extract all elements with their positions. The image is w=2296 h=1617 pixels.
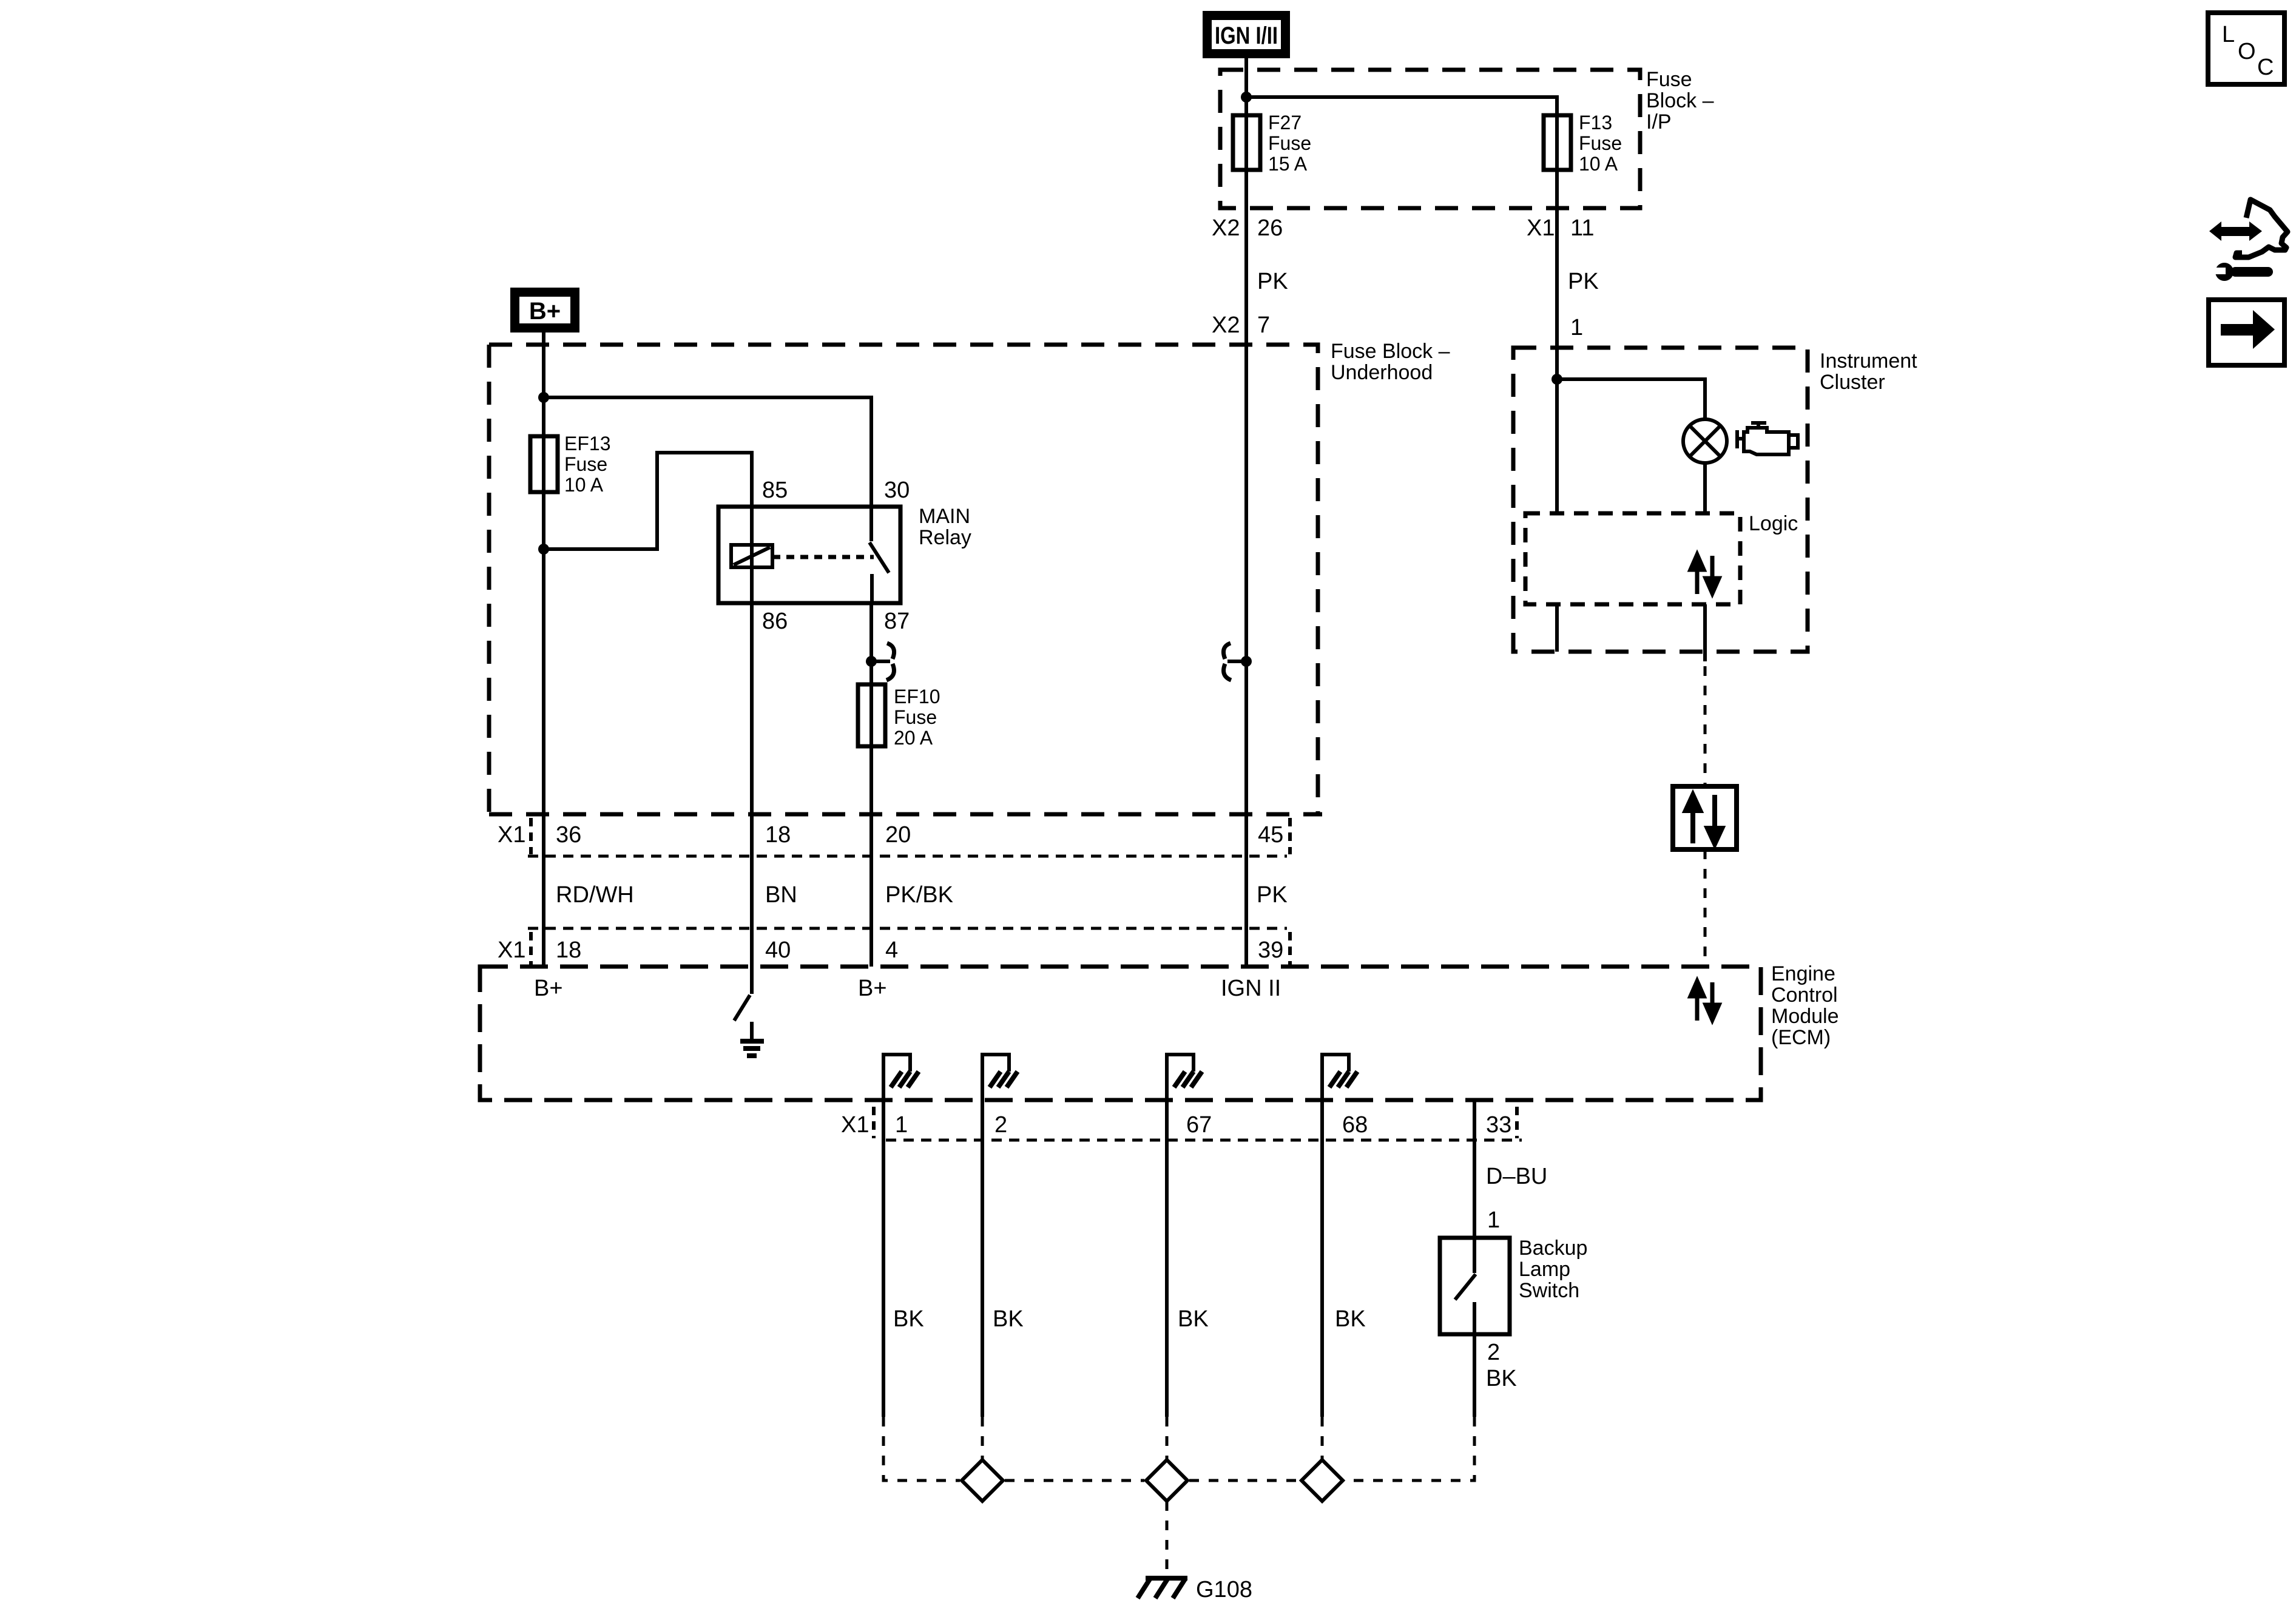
ECM serial arrows xyxy=(1690,981,1719,1021)
svg-text:18: 18 xyxy=(556,937,581,963)
connector X1 bottom label xyxy=(841,1112,869,1138)
pin 30 label xyxy=(884,478,910,503)
label Fuse Block I/P xyxy=(1646,68,1714,133)
pin 68 label xyxy=(1342,1112,1368,1138)
net name B+ right xyxy=(858,976,887,1001)
wire ECM pin 33 to switch xyxy=(1473,1100,1476,1238)
dashed ground bus left elbow xyxy=(883,1417,960,1480)
ground G108 symbol xyxy=(1138,1578,1187,1598)
ECM internal switch to ground xyxy=(734,967,752,1021)
svg-text:86: 86 xyxy=(762,609,788,634)
wire color BK pin67 xyxy=(1178,1306,1209,1332)
svg-text:36: 36 xyxy=(556,822,581,848)
power flag IGN I/II xyxy=(1203,11,1290,58)
splice diamond pin68 xyxy=(1302,1460,1343,1501)
wire color BK pin68 xyxy=(1335,1306,1366,1332)
svg-text:PK: PK xyxy=(1257,269,1288,294)
connector row upper dashed line 2 xyxy=(528,927,1287,930)
wire color BK pin1 xyxy=(893,1306,924,1332)
svg-text:MAIN: MAIN xyxy=(919,505,970,528)
dashed wire to splice diamond 2 xyxy=(981,1417,984,1460)
instrument cluster dashed box xyxy=(1513,348,1808,652)
svg-text:X2: X2 xyxy=(1212,215,1240,241)
connector tick X1 row2 left xyxy=(529,932,533,965)
node junction 87 xyxy=(866,656,877,667)
engine symbol MIL xyxy=(1737,423,1798,454)
svg-text:BK: BK xyxy=(1178,1306,1209,1332)
svg-text:33: 33 xyxy=(1486,1112,1511,1138)
svg-text:1: 1 xyxy=(895,1112,908,1138)
pin 18 label row1 xyxy=(765,822,791,848)
net name IGN II xyxy=(1221,976,1281,1001)
svg-text:40: 40 xyxy=(765,937,791,963)
svg-text:IGN II: IGN II xyxy=(1221,976,1281,1001)
label MAIN Relay xyxy=(919,505,971,549)
dashed wire to G108 xyxy=(1166,1501,1169,1576)
backup lamp switch xyxy=(1440,1238,1510,1334)
svg-text:Fuse: Fuse xyxy=(894,706,937,728)
wire EF10 to ECM B+ pin xyxy=(869,746,873,967)
inline connector clip left xyxy=(1223,643,1241,680)
pin 2 label xyxy=(994,1112,1007,1138)
fuse block underhood dashed box xyxy=(489,345,1318,814)
legend car wrench icon xyxy=(2209,200,2288,281)
fuse block I/P dashed box xyxy=(1220,70,1640,208)
wire relay 87 to EF10 xyxy=(869,603,873,684)
wire IGN I/II to fuse F27 xyxy=(1244,58,1248,115)
pin 1 label xyxy=(895,1112,908,1138)
switch pin 2 label xyxy=(1487,1340,1500,1365)
connector X2 pin 26 xyxy=(1212,215,1283,241)
node junction on IGN feed xyxy=(1241,92,1252,103)
switch pin 1 label xyxy=(1487,1207,1500,1233)
power flag B+ xyxy=(510,288,579,333)
wire color PK left xyxy=(1257,269,1288,294)
wire ECM pin 2 ground xyxy=(981,1100,984,1417)
pin 67 label xyxy=(1186,1112,1212,1138)
svg-text:Instrument: Instrument xyxy=(1820,349,1917,373)
pin 4 label xyxy=(885,937,898,963)
svg-text:1: 1 xyxy=(1487,1207,1500,1233)
dashed bus segment 2 xyxy=(1005,1479,1144,1482)
svg-text:X1: X1 xyxy=(498,822,525,848)
connector tick bottom right xyxy=(1515,1107,1519,1138)
svg-text:F13: F13 xyxy=(1579,112,1612,133)
wire switch to splice xyxy=(1473,1334,1476,1417)
svg-text:68: 68 xyxy=(1342,1112,1368,1138)
wire logic to cluster edge xyxy=(1703,604,1707,661)
node junction cluster feed xyxy=(1551,374,1562,385)
node junction IGN wire xyxy=(1241,656,1252,667)
logic ground stub xyxy=(1555,604,1559,652)
svg-text:BK: BK xyxy=(1486,1366,1517,1391)
svg-text:10 A: 10 A xyxy=(564,474,604,496)
connector pin 1 instrument cluster xyxy=(1570,315,1583,340)
svg-text:Underhood: Underhood xyxy=(1331,361,1433,384)
svg-text:BK: BK xyxy=(1335,1306,1366,1332)
wire junction to indicator lamp xyxy=(1557,379,1705,419)
net name B+ left xyxy=(534,976,563,1001)
svg-text:PK/BK: PK/BK xyxy=(885,882,953,908)
pin 20 label xyxy=(885,822,911,848)
label Logic xyxy=(1749,512,1798,535)
wire color PK right xyxy=(1568,269,1599,294)
svg-text:D–BU: D–BU xyxy=(1486,1164,1547,1189)
svg-text:L: L xyxy=(2222,22,2235,47)
svg-text:B+: B+ xyxy=(534,976,563,1001)
wire color BK switch xyxy=(1486,1366,1517,1391)
splice diamond pin67 xyxy=(1146,1460,1187,1501)
svg-text:45: 45 xyxy=(1258,822,1283,848)
pin 85 label xyxy=(762,478,788,503)
dashed data wire cluster to serial box xyxy=(1704,666,1707,786)
wire junction to logic xyxy=(1555,379,1559,513)
label Engine Control Module ECM xyxy=(1771,962,1839,1049)
legend forward arrow box xyxy=(2209,300,2284,365)
svg-text:IGN I/II: IGN I/II xyxy=(1215,22,1278,49)
fuse F13 xyxy=(1544,112,1622,175)
svg-text:7: 7 xyxy=(1257,312,1270,338)
connector tick X1 row1 left xyxy=(529,818,533,854)
svg-text:Logic: Logic xyxy=(1749,512,1798,535)
svg-text:26: 26 xyxy=(1257,215,1283,241)
earth ground symbol xyxy=(740,1022,764,1056)
svg-text:Relay: Relay xyxy=(919,526,971,549)
svg-text:85: 85 xyxy=(762,478,788,503)
relay coil xyxy=(731,507,772,603)
fuse EF13 xyxy=(530,433,610,496)
svg-text:BN: BN xyxy=(765,882,797,908)
svg-text:X2: X2 xyxy=(1212,312,1240,338)
fuse EF10 xyxy=(858,684,940,749)
pin 40 label xyxy=(765,937,791,963)
indicator lamp xyxy=(1683,419,1727,463)
dashed bus segment 3 xyxy=(1189,1479,1300,1482)
svg-text:EF10: EF10 xyxy=(894,686,940,707)
relay MAIN box xyxy=(718,507,900,603)
wire color BN xyxy=(765,882,797,908)
svg-text:X1: X1 xyxy=(841,1112,869,1138)
svg-text:39: 39 xyxy=(1258,937,1283,963)
svg-text:Backup: Backup xyxy=(1519,1237,1587,1260)
svg-text:30: 30 xyxy=(884,478,910,503)
svg-text:Control: Control xyxy=(1771,984,1838,1007)
svg-text:Fuse: Fuse xyxy=(1579,132,1622,154)
connector X1 row2 label xyxy=(498,937,525,963)
svg-text:20: 20 xyxy=(885,822,911,848)
connector row bottom dashed line xyxy=(886,1139,1522,1142)
svg-text:F27: F27 xyxy=(1268,112,1302,133)
label Instrument Cluster xyxy=(1820,349,1917,394)
pin 86 label xyxy=(762,609,788,634)
wire ECM pin 67 ground xyxy=(1165,1100,1169,1417)
svg-text:67: 67 xyxy=(1186,1112,1212,1138)
pin 33 label xyxy=(1486,1112,1511,1138)
svg-text:PK: PK xyxy=(1257,882,1288,908)
svg-text:Engine: Engine xyxy=(1771,962,1835,985)
svg-text:I/P: I/P xyxy=(1646,110,1672,133)
wire junction to fuse F13 xyxy=(1246,97,1557,115)
net name G108 xyxy=(1196,1577,1252,1602)
svg-text:1: 1 xyxy=(1570,315,1583,340)
ground hook pin 1 xyxy=(883,1055,919,1100)
svg-text:O: O xyxy=(2238,39,2256,64)
svg-text:Fuse: Fuse xyxy=(1646,68,1692,91)
node junction B+ upper xyxy=(538,392,549,403)
connector tick X1 bottom xyxy=(872,1107,876,1138)
svg-text:B+: B+ xyxy=(529,298,561,325)
svg-text:87: 87 xyxy=(884,609,910,634)
pin 45 label xyxy=(1258,822,1283,848)
wire EF13 to ECM B+ pin xyxy=(542,492,545,967)
dashed ground bus right elbow xyxy=(1345,1417,1474,1480)
pin 87 label xyxy=(884,609,910,634)
svg-text:BK: BK xyxy=(893,1306,924,1332)
svg-text:2: 2 xyxy=(994,1112,1007,1138)
svg-text:Block –: Block – xyxy=(1646,89,1714,112)
ground hook pin 2 xyxy=(982,1055,1018,1100)
wire F27 to ECM IGN II pin xyxy=(1244,170,1248,967)
inline connector clip right xyxy=(876,643,894,680)
connector X1 row1 label xyxy=(498,822,525,848)
connector row lower dashed line 1 xyxy=(528,855,1287,858)
node junction B+ lower xyxy=(538,544,549,555)
connector X2 pin 7 xyxy=(1212,312,1270,338)
svg-text:Lamp: Lamp xyxy=(1519,1258,1570,1281)
wire color PK/BK xyxy=(885,882,953,908)
dashed wire to splice diamond 67 xyxy=(1166,1417,1169,1460)
svg-text:18: 18 xyxy=(765,822,791,848)
svg-text:Cluster: Cluster xyxy=(1820,371,1885,394)
serial data box xyxy=(1673,786,1737,849)
ground hook pin 67 xyxy=(1167,1055,1202,1100)
svg-text:15 A: 15 A xyxy=(1268,153,1308,175)
wire color RD/WH xyxy=(556,882,634,908)
connector row line underhood bottom xyxy=(489,812,1322,817)
dashed wire to splice diamond 68 xyxy=(1321,1417,1324,1460)
dashed data wire serial box to ECM xyxy=(1704,849,1707,967)
svg-text:C: C xyxy=(2257,55,2274,80)
wire ECM pin 1 ground xyxy=(882,1100,885,1417)
svg-text:PK: PK xyxy=(1568,269,1599,294)
legend LOC box xyxy=(2208,13,2284,84)
pin 39 label xyxy=(1258,937,1283,963)
svg-text:RD/WH: RD/WH xyxy=(556,882,634,908)
connector tick row2 right xyxy=(1288,932,1292,965)
svg-text:4: 4 xyxy=(885,937,898,963)
wire color PK ignition xyxy=(1257,882,1288,908)
svg-text:EF13: EF13 xyxy=(564,433,610,454)
relay switch xyxy=(869,507,889,603)
logic dashed box xyxy=(1525,513,1740,604)
svg-text:X1: X1 xyxy=(498,937,525,963)
wire junction to relay pin 85 xyxy=(544,453,752,549)
svg-text:B+: B+ xyxy=(858,976,887,1001)
label Fuse Block Underhood xyxy=(1331,340,1450,384)
connector X1 pin 11 xyxy=(1527,215,1594,241)
wire F13 to instrument cluster xyxy=(1555,170,1559,513)
svg-text:Switch: Switch xyxy=(1519,1279,1579,1302)
svg-text:Fuse: Fuse xyxy=(1268,132,1311,154)
svg-text:2: 2 xyxy=(1487,1340,1500,1365)
wire ECM pin 68 ground xyxy=(1320,1100,1324,1417)
pin 36 label xyxy=(556,822,581,848)
pin 18 label row2 xyxy=(556,937,581,963)
svg-text:10 A: 10 A xyxy=(1579,153,1618,175)
ground hook pin 68 xyxy=(1322,1055,1357,1100)
svg-text:Fuse: Fuse xyxy=(564,453,607,475)
wire relay 86 to ECM xyxy=(750,603,754,967)
relay actuation dashed link xyxy=(772,555,874,559)
svg-text:Module: Module xyxy=(1771,1005,1839,1028)
wire junction to relay pin 30 xyxy=(544,397,871,507)
svg-text:X1: X1 xyxy=(1527,215,1555,241)
svg-text:11: 11 xyxy=(1570,215,1594,241)
wire B+ feed xyxy=(542,333,545,436)
label Backup Lamp Switch xyxy=(1519,1237,1587,1302)
logic serial arrows xyxy=(1690,555,1719,594)
wire lamp to logic xyxy=(1703,463,1707,513)
svg-text:(ECM): (ECM) xyxy=(1771,1026,1831,1049)
connector tick row1 right xyxy=(1288,818,1292,854)
fuse F27 xyxy=(1233,112,1311,175)
svg-text:BK: BK xyxy=(993,1306,1024,1332)
svg-text:20 A: 20 A xyxy=(894,727,933,749)
svg-text:G108: G108 xyxy=(1196,1577,1252,1602)
splice diamond pin2 xyxy=(962,1460,1003,1501)
ECM dashed box xyxy=(480,967,1761,1100)
svg-text:Fuse Block –: Fuse Block – xyxy=(1331,340,1450,363)
wire color D-BU xyxy=(1486,1164,1547,1189)
wire color BK pin2 xyxy=(993,1306,1024,1332)
